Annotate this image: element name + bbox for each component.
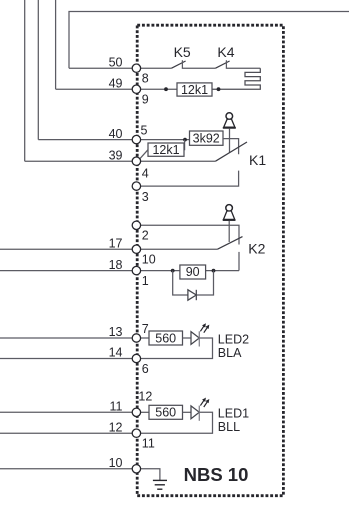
- wire 13: [0, 337, 132, 339]
- contact K5 blade: [172, 61, 186, 68]
- wire pin8 to K5: [141, 67, 172, 69]
- svg-text:50: 50: [109, 55, 123, 69]
- svg-text:BLA: BLA: [218, 346, 242, 360]
- LED2 diode: [191, 332, 199, 345]
- svg-text:12: 12: [138, 390, 152, 404]
- svg-text:BLL: BLL: [218, 420, 240, 434]
- wire 49 vertical: [55, 0, 57, 89]
- resistor 560 (LED1): [149, 405, 183, 419]
- wire 560 to LED1: [183, 411, 192, 413]
- svg-text:10: 10: [109, 456, 123, 470]
- LED2 arrows: [200, 324, 208, 333]
- terminal pin5: [132, 135, 140, 143]
- svg-text:13: 13: [109, 325, 123, 339]
- resistor 90: [180, 265, 206, 279]
- svg-text:10: 10: [142, 253, 156, 267]
- svg-text:12k1: 12k1: [181, 83, 208, 97]
- diode D1: [188, 290, 196, 300]
- wire 49: [56, 88, 132, 90]
- wire 50: [69, 67, 132, 69]
- svg-text:49: 49: [109, 76, 123, 90]
- svg-text:7: 7: [142, 322, 149, 336]
- svg-text:K4: K4: [217, 44, 234, 60]
- svg-text:40: 40: [109, 127, 123, 141]
- resistor 12k1 (lower): [148, 143, 184, 156]
- plug connector comb: [212, 68, 260, 89]
- wire 10: [0, 468, 132, 470]
- svg-text:K2: K2: [248, 241, 265, 257]
- ground: [153, 480, 167, 489]
- bell symbol K2: [223, 205, 236, 242]
- svg-text:5: 5: [141, 124, 148, 138]
- svg-text:12k1: 12k1: [152, 143, 179, 157]
- wire 12: [0, 432, 132, 434]
- terminal gnd: [132, 465, 140, 473]
- contact K4 blade: [216, 61, 230, 68]
- wire pin1: [141, 270, 239, 272]
- svg-text:K5: K5: [174, 44, 191, 60]
- wire 3k92 to K1 contact: [223, 139, 239, 155]
- terminal pin7: [132, 334, 140, 342]
- svg-text:39: 39: [109, 148, 123, 162]
- terminal pin10: [132, 245, 140, 253]
- wire pin2: [141, 225, 239, 244]
- wire pin gnd: [141, 469, 160, 481]
- terminal pin8: [132, 64, 140, 72]
- LED1 diode: [191, 406, 199, 419]
- terminal pin4: [132, 157, 140, 165]
- svg-text:1: 1: [142, 274, 149, 288]
- terminal pin6: [132, 354, 140, 362]
- wire pin5: [141, 139, 190, 141]
- svg-text:6: 6: [142, 362, 149, 376]
- wire pin10: [141, 248, 218, 250]
- wire K2 common down: [238, 252, 240, 271]
- wire LED1 return: [141, 412, 213, 433]
- terminal pin3: [132, 182, 140, 190]
- svg-text:K1: K1: [249, 152, 266, 168]
- resistor 560 (LED2): [149, 331, 183, 345]
- wire pin4 to 12k1: [140, 150, 148, 159]
- wire 17: [0, 248, 132, 250]
- contact K5 fixed: [182, 60, 215, 68]
- wire 560 to LED2: [183, 337, 192, 339]
- svg-text:4: 4: [142, 167, 149, 181]
- junction dot: [164, 87, 168, 91]
- resistor 12k1 (upper): [177, 83, 212, 96]
- wire 39: [25, 160, 132, 162]
- svg-text:12: 12: [109, 420, 123, 434]
- junction dot: [183, 138, 187, 142]
- resistor 3k92: [190, 131, 224, 145]
- svg-text:2: 2: [142, 229, 149, 243]
- wire 40 vertical: [37, 0, 39, 140]
- terminal pin9: [132, 85, 140, 93]
- svg-text:3k92: 3k92: [193, 131, 220, 145]
- svg-text:560: 560: [155, 331, 176, 345]
- wire 39 vertical: [24, 0, 26, 161]
- wire pin9: [141, 88, 177, 90]
- wire pin4: [141, 160, 216, 162]
- switch K1 blade: [216, 142, 248, 161]
- terminal pin2: [132, 221, 140, 229]
- svg-text:11: 11: [110, 400, 123, 414]
- wire pin12: [141, 411, 149, 413]
- svg-text:90: 90: [186, 265, 200, 279]
- LED1 arrows: [200, 398, 208, 407]
- svg-text:NBS 10: NBS 10: [184, 464, 249, 485]
- svg-text:LED1: LED1: [218, 406, 249, 420]
- terminal pin11: [132, 429, 140, 437]
- svg-text:18: 18: [109, 258, 123, 272]
- svg-text:9: 9: [142, 93, 149, 107]
- wire 11: [0, 411, 132, 413]
- contact K4 fixed: [226, 60, 260, 68]
- wire 14: [0, 358, 132, 360]
- wire 18: [0, 270, 132, 272]
- svg-text:560: 560: [155, 406, 176, 420]
- svg-text:11: 11: [142, 437, 155, 451]
- svg-text:17: 17: [109, 236, 123, 250]
- svg-text:3: 3: [142, 190, 149, 204]
- wire to 12k1 right: [183, 140, 186, 150]
- terminal pin12: [132, 408, 140, 416]
- svg-text:LED2: LED2: [218, 332, 249, 346]
- wire pin7: [141, 337, 149, 339]
- switch K2 blade: [218, 237, 243, 250]
- NBS 10 dashed enclosure: [137, 25, 283, 496]
- svg-text:8: 8: [142, 72, 149, 86]
- wire pin3: [141, 171, 239, 187]
- wire 40: [38, 139, 132, 141]
- wire top bus (to 50): [69, 12, 349, 69]
- junction dot: [217, 87, 221, 91]
- svg-text:14: 14: [109, 346, 123, 360]
- terminal pin1: [132, 266, 140, 274]
- junction dot: [212, 269, 216, 273]
- bell symbol K1: [223, 113, 236, 153]
- junction dot: [171, 269, 175, 273]
- wire diode branch: [173, 271, 214, 295]
- wire LED2 return: [141, 338, 213, 359]
